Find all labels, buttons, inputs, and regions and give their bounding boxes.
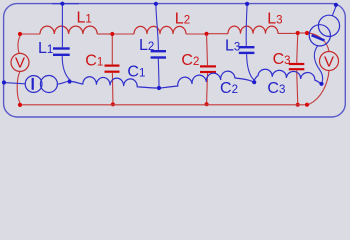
wire: red bottom rail (22, 104, 305, 106)
node n4 (blue dot) (319, 82, 323, 86)
wire: dual cap L3 top lead (245, 6, 248, 46)
dual capacitor L3 (blue) (239, 46, 255, 54)
wire: L2 to node C (186, 33, 204, 35)
wire: dual cap L2 bottom lead (157, 59, 160, 86)
outer loop of dual network (border) (4, 4, 346, 117)
wire: red top rail left segment (22, 33, 40, 35)
wire: node B to L2 (114, 33, 134, 35)
node a1 (blue dot, top rail) (60, 2, 64, 6)
svg-text:V: V (324, 53, 334, 70)
wire: dual cap L2 top lead (156, 5, 159, 50)
wire: load bottom lead (red) (309, 71, 329, 105)
capacitor C3 (red) (289, 63, 305, 70)
node I (red dot) (296, 103, 300, 107)
wire: dual source to node n4 (314, 45, 322, 81)
node A (red dot) (18, 32, 22, 36)
load V2 (red circle voltmeter) (320, 52, 339, 71)
node E (red dot) (305, 31, 309, 35)
node b4 (blue dot on top right border) (334, 3, 338, 7)
node J (red dot) (305, 103, 309, 107)
node G (red dot) (111, 102, 115, 106)
wire: L3 to node D (278, 32, 296, 34)
node D (red dot) (296, 31, 300, 35)
node H (red dot) (205, 102, 209, 106)
inductor L2 (red coil) (134, 26, 186, 34)
wire: source bottom lead (red, left) (17, 71, 20, 103)
wire: dual cap L1 bottom lead (62, 56, 69, 80)
capacitor C1 (red) (105, 65, 120, 73)
wire: dual cap L1 top lead (61, 5, 63, 47)
node a3 (blue dot, top rail) (245, 2, 249, 6)
dual inductor C3 (blue coil) (254, 69, 320, 83)
node n2 (blue dot) (157, 86, 161, 90)
wire: node E to load (red, right top) (309, 33, 329, 51)
wire: border to current source (6, 83, 25, 84)
node n3 (blue dot) (252, 80, 256, 84)
node n1 (blue dot) (68, 79, 72, 83)
node C (red dot) (204, 32, 208, 36)
svg-text:V: V (15, 55, 25, 72)
wire: L1 to node B (97, 33, 110, 35)
wire: node D down to C3 (297, 35, 298, 63)
wire: node D to node E (300, 32, 305, 34)
dual inductor C2 (blue coil) (161, 71, 253, 88)
capacitor C2 (red) (200, 65, 216, 73)
wire: border to dual source (332, 7, 336, 16)
label I (blue bar) (32, 78, 34, 90)
wire: node B down to C1 (111, 36, 113, 64)
wire: top rail segment at node a1 (52, 3, 79, 5)
node F (red dot, bottom left) (18, 103, 22, 107)
wire: dual cap L3 bottom lead (247, 54, 255, 80)
dual capacitor L2 (blue) (151, 50, 166, 59)
node a2 (blue dot, top rail) (154, 2, 158, 6)
inductor L1 (red coil) (40, 26, 97, 34)
label I (blue diagonal bar) (312, 35, 325, 40)
wire: node C to L3 (209, 33, 228, 35)
node B (red dot) (110, 32, 114, 36)
inductor L3 (red coil) (228, 26, 278, 33)
source V1 (red circle) (11, 53, 29, 71)
wire: C3 down to bottom rail (297, 70, 298, 102)
wire: C1 down to bottom rail (111, 73, 114, 103)
dual source (blue circle pair, right) (309, 15, 339, 46)
node b0 (blue dot on left border) (2, 80, 6, 84)
current source I (blue circle pair) (25, 76, 57, 93)
dual capacitor L1 (blue) (53, 47, 70, 56)
dual inductor C1 (blue coil) (72, 77, 157, 88)
wire: current source to node n1 (57, 82, 67, 85)
wire: source top lead (red, left) (18, 36, 20, 54)
wire: C2 down to bottom rail (206, 73, 209, 102)
wire: node C down to C2 (206, 36, 209, 65)
